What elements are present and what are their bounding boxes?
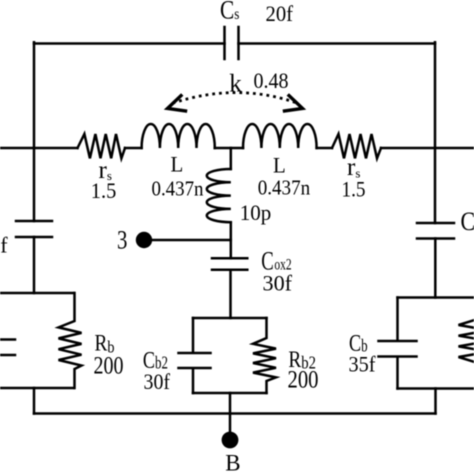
wire left box to bottom rail — [33, 388, 36, 414]
capacitor left (cut, value f) — [16, 221, 52, 237]
svg-text:200: 200 — [288, 367, 319, 394]
box left bottom wire — [0, 387, 74, 390]
svg-text:C: C — [461, 208, 474, 236]
node B dot — [222, 432, 239, 449]
box center top wire — [193, 317, 267, 320]
coupling arrow k dotted arc — [173, 93, 298, 104]
capacitor left-box plates — [0, 340, 15, 356]
box right bottom wire — [398, 387, 474, 390]
node 3 wire — [144, 239, 231, 242]
coupling arrowhead right — [285, 96, 303, 111]
node 3 dot — [136, 232, 152, 248]
capacitor Cb2 branch — [179, 318, 211, 393]
svg-text:B: B — [225, 450, 240, 474]
svg-text:L: L — [171, 152, 184, 177]
wire right rail upper — [434, 42, 437, 223]
wire left rail lower — [33, 237, 36, 293]
svg-text:20f: 20f — [266, 1, 294, 26]
inductor vertical 10p — [207, 169, 231, 222]
resistor Rb branch — [59, 293, 82, 388]
box right top wire — [398, 296, 474, 299]
resistor Rb2 branch — [253, 318, 276, 393]
wire right box to bottom rail — [434, 389, 437, 414]
wire center box to node B — [229, 393, 232, 436]
capacitor Cs — [225, 27, 239, 59]
capacitor Cb branch — [379, 298, 417, 389]
wire left rail upper — [33, 42, 36, 221]
capacitor right C (cut) — [417, 223, 454, 239]
svg-text:10p: 10p — [240, 200, 271, 225]
svg-text:3: 3 — [117, 227, 127, 256]
wire top rail — [34, 42, 435, 45]
svg-text:k: k — [229, 71, 242, 98]
coupling arrowhead left — [168, 96, 186, 111]
box left top wire — [0, 292, 74, 295]
svg-text:30f: 30f — [144, 369, 171, 394]
inductor L right — [243, 124, 317, 148]
resistor right-box branch (cut) — [459, 298, 474, 389]
wire right rail lower — [434, 239, 437, 298]
svg-text:0.437n: 0.437n — [152, 177, 204, 201]
wire Cox2 to center box — [229, 270, 232, 318]
svg-text:35f: 35f — [349, 352, 377, 377]
resistor rs left — [78, 134, 126, 158]
svg-text:1.5: 1.5 — [342, 177, 366, 202]
wire below coil — [230, 222, 233, 258]
wire mid rail — [0, 147, 474, 150]
inductor L left — [142, 124, 215, 148]
svg-text:30f: 30f — [263, 271, 293, 296]
resistor rs right — [332, 134, 381, 158]
svg-text:0.437n: 0.437n — [258, 176, 311, 200]
capacitor Cox2 — [212, 258, 247, 270]
svg-text:Cs: Cs — [220, 0, 240, 25]
svg-text:L: L — [273, 153, 286, 178]
svg-text:0.48: 0.48 — [254, 68, 289, 93]
svg-text:f: f — [0, 233, 8, 258]
box center bottom wire — [193, 392, 267, 395]
wire bottom rail — [34, 412, 436, 415]
wire center junction down — [230, 148, 233, 169]
svg-text:200: 200 — [94, 353, 124, 380]
svg-text:1.5: 1.5 — [91, 178, 117, 203]
